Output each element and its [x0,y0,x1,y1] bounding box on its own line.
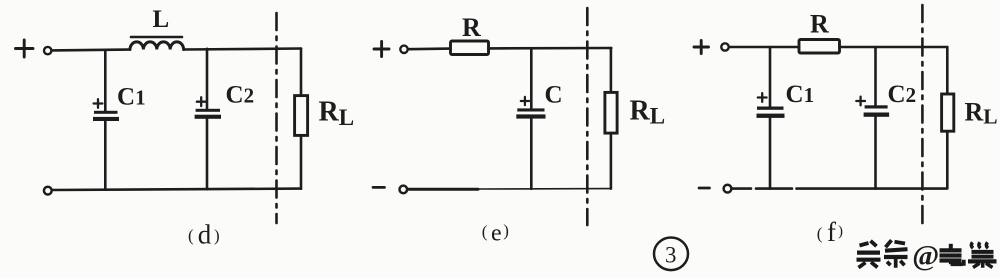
plus sign input (f) [694,41,709,54]
label L [153,6,170,33]
load resistor RL (d) [295,96,308,136]
load resistor RL (e) [605,92,617,133]
label RL (f) [965,97,998,128]
svg-text:C2: C2 [888,81,917,108]
terminal bottom input (e) [400,186,408,194]
capacitor C1 (f) [757,47,785,189]
watermark glyph 电 [940,244,964,266]
watermark glyph 条 [884,240,908,268]
svg-text:C1: C1 [786,81,815,108]
minus sign input (e) [373,186,385,189]
watermark glyph 头 [857,241,881,268]
svg-text:f: f [827,217,836,247]
terminal bottom input (d) [44,187,52,195]
caption (f) [817,217,843,247]
polarity plus C (e) [521,97,529,105]
caption (e) [482,221,509,247]
wire (e) top right [489,47,612,50]
wire (d) right vertical top [300,49,303,96]
watermark glyph 巢 [968,242,997,267]
label C1 (f) [786,81,815,108]
label C2 (f) [888,81,917,108]
svg-text:RL: RL [630,95,666,128]
label R (f) [810,10,829,39]
svg-text:RL: RL [319,97,355,131]
label R (e) [462,13,481,42]
boundary dash-dot line (f) [921,5,924,228]
capacitor C2 (f) [864,47,890,189]
svg-text:R: R [810,10,829,39]
boundary dash-dot line (e) [586,8,589,225]
plus sign input (d) [16,40,34,57]
capacitor C2 (d) [195,49,221,189]
resistor R (e) [451,41,489,55]
wire (f) top right [840,46,948,49]
watermark 头条@电巢 [857,240,997,272]
label C1 [117,83,146,110]
wire (d) right vertical bottom [300,135,303,188]
wire (e) right vertical bottom [610,133,613,189]
svg-text:C2: C2 [226,82,255,109]
label RL (d) [319,97,355,131]
polarity plus C1 (f) [758,93,767,102]
load resistor RL (f) [942,94,954,131]
polarity plus C2 (f) [856,97,865,106]
svg-text:): ) [503,221,509,240]
inductor L [130,37,184,50]
wire (f) top left [729,46,799,49]
capacitor C1 [93,50,119,190]
figure number (3) [654,238,688,271]
wire (d) bottom [53,189,302,190]
wire (f) right vertical bottom [946,131,949,188]
wire (d) top left [52,48,130,52]
svg-text:L: L [153,6,170,33]
terminal top input (d) [44,47,51,54]
watermark glyph @ [912,240,939,272]
svg-text:(: ( [482,222,488,241]
svg-text:C: C [545,82,563,109]
boundary dash-dot line (d) [275,13,278,223]
wire (d) top right [184,49,301,50]
wire (e) bottom [407,187,611,191]
svg-text:@: @ [912,240,939,272]
polarity plus C1 [94,99,103,108]
minus sign input (f) [699,187,710,190]
svg-text:(: ( [188,226,194,245]
wire (e) right vertical top [610,48,613,92]
svg-text:R: R [462,13,481,42]
svg-text:): ) [838,224,843,240]
svg-text:3: 3 [665,243,677,268]
wire (e) top left [408,47,451,50]
label C2 (d) [226,82,255,109]
svg-text:(: ( [817,224,823,243]
wire (f) right vertical top [946,47,949,94]
svg-text:e: e [491,221,502,247]
svg-text:RL: RL [965,97,998,128]
wire (f) bottom [732,187,947,190]
plus sign input (e) [374,42,389,57]
svg-text:C1: C1 [117,83,146,110]
terminal top input (f) [721,43,728,50]
svg-text:d: d [198,219,212,249]
svg-text:): ) [214,226,220,245]
label C (e) [545,82,563,109]
terminal bottom input (f) [724,185,732,193]
capacitor C (e) [516,48,545,189]
caption (d) [188,219,220,249]
resistor R (f) [799,40,840,54]
terminal top input (e) [400,46,407,53]
label RL (e) [630,95,666,128]
polarity plus C2 (d) [197,97,206,106]
